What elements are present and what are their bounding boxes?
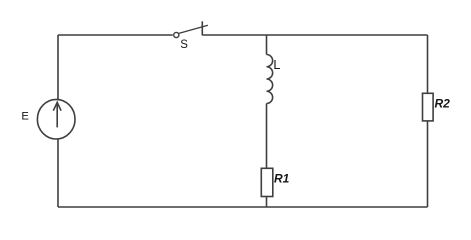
switch S pivot circle [174, 32, 179, 37]
inductor L coil [267, 54, 273, 103]
wire middle lower (R1 to bottom rail) [266, 197, 268, 208]
svg-text:R1: R1 [274, 171, 290, 185]
svg-text:L: L [273, 58, 280, 72]
switch S blade [179, 25, 208, 33]
resistor R1 body [261, 168, 273, 196]
svg-text:S: S [180, 39, 188, 51]
wire top-left (source to switch) [58, 34, 173, 36]
wire middle (inductor to R1) [266, 104, 268, 169]
wire right lower (R2 to bottom-right corner) [427, 121, 429, 207]
switch S fixed contact bar [201, 21, 203, 35]
svg-text:R2: R2 [435, 97, 451, 111]
bottom rail wire [58, 206, 428, 208]
wire left lower (source to bottom-left corner) [57, 139, 59, 207]
svg-text:E: E [21, 110, 28, 122]
source E arrow shaft [56, 105, 58, 128]
wire middle upper (top rail to inductor) [266, 35, 268, 55]
resistor R2 body [423, 93, 434, 121]
current source E circle [37, 99, 75, 139]
source E arrowhead [53, 102, 61, 110]
wire right upper (top-right corner to R2) [427, 35, 429, 93]
wire left upper (top-left corner down to source) [57, 35, 59, 99]
wire top-right (switch to top-right corner) [202, 34, 427, 36]
